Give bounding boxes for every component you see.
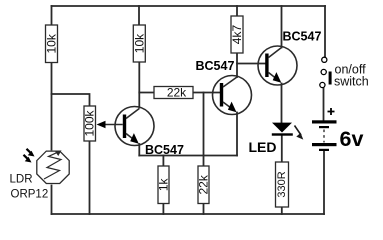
- svg-text:22k: 22k: [197, 174, 211, 194]
- wire 330R bottom lead: [281, 207, 283, 214]
- preset resistor 100k box: [84, 106, 96, 141]
- LDR internal zigzag: [44, 152, 61, 179]
- wire 22k R3 right lead to Q2 base: [193, 92, 220, 94]
- transistor Q3: [258, 46, 297, 85]
- transistor Q2: [213, 76, 252, 115]
- resistor R5 1k box: [158, 166, 169, 204]
- wire 4k7 bottom to Q2 collector: [236, 53, 238, 77]
- LDR ORP12 body: [37, 151, 69, 183]
- svg-text:BC547: BC547: [145, 143, 184, 157]
- wire LED cathode to 330R: [281, 136, 283, 163]
- wire R1 bottom to LDR: [51, 63, 53, 150]
- wire Q3 base lead: [237, 63, 265, 65]
- LDR light arrow 2: [24, 155, 32, 163]
- svg-text:4k7: 4k7: [230, 25, 244, 45]
- resistor R7 330R box: [276, 162, 289, 207]
- svg-text:LDR: LDR: [10, 174, 33, 186]
- wire 22k R6 bottom lead: [203, 204, 205, 215]
- svg-text:100k: 100k: [83, 109, 97, 136]
- svg-text:330R: 330R: [276, 171, 288, 197]
- wire LDR bottom to rail: [51, 186, 53, 215]
- wire switch bottom to battery: [323, 88, 325, 121]
- wire Q1 base lead with preset arrow: [97, 121, 123, 128]
- wire 1k bottom lead: [162, 204, 164, 215]
- svg-text:switch: switch: [334, 75, 369, 89]
- svg-text:ORP12: ORP12: [11, 189, 49, 201]
- LED light arrow: [295, 126, 304, 140]
- wire Q3 emitter to LED: [281, 84, 283, 124]
- resistor R2 10k box: [133, 25, 145, 62]
- svg-text:BC547: BC547: [196, 59, 235, 73]
- wire 10k R2 top lead: [138, 6, 140, 25]
- wire 22k R6 from base node down through emitter wire: [203, 93, 205, 167]
- battery B1 6v: [312, 120, 337, 151]
- battery plus sign: [328, 108, 335, 115]
- wire top rail: [52, 5, 326, 7]
- wire 10k R1 top lead: [51, 6, 53, 25]
- resistor R1 10k box: [46, 25, 58, 63]
- wire Q3 collector to rail: [281, 6, 283, 48]
- svg-text:LED: LED: [249, 139, 277, 155]
- wire 1k top lead: [162, 156, 164, 167]
- wire bottom rail: [52, 213, 325, 215]
- svg-text:1k: 1k: [157, 177, 171, 191]
- LDR light arrow 1: [27, 149, 35, 157]
- svg-text:6v: 6v: [340, 127, 364, 151]
- transistor Q1: [115, 107, 154, 146]
- LED D1: [272, 123, 293, 136]
- wire 22k R3 left lead: [139, 92, 154, 94]
- wire 10k R2 bottom to Q1 collector: [138, 62, 140, 108]
- resistor R3 22k horizontal box: [154, 87, 193, 99]
- wire 100k bottom to bottom rail: [89, 141, 91, 214]
- svg-text:10k: 10k: [132, 33, 146, 53]
- wire battery bottom to rail: [323, 152, 325, 215]
- svg-text:BC547: BC547: [283, 30, 322, 44]
- wire 4k7 top lead: [236, 6, 238, 16]
- wire node A branch to 100k: [52, 94, 90, 106]
- wire right column top to switch: [324, 6, 326, 57]
- svg-text:22k: 22k: [167, 86, 187, 100]
- wire Q2 emitter down: [236, 113, 238, 156]
- wire Q1 emitter down: [138, 144, 140, 156]
- svg-text:10k: 10k: [45, 33, 59, 53]
- LDR zigzag arrowhead: [55, 150, 61, 156]
- on/off switch: [320, 57, 332, 87]
- resistor R4 4k7 box: [231, 16, 243, 53]
- wire emitter rail Q1-Q2: [139, 155, 237, 157]
- resistor R6 22k box: [198, 166, 209, 204]
